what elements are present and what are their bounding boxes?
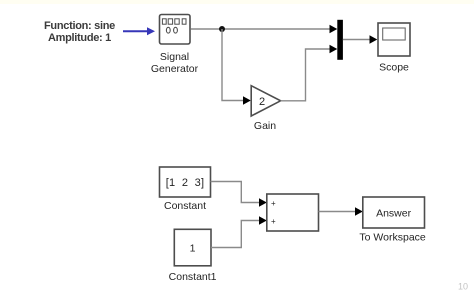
block: Constant1 xyxy=(174,229,211,265)
svg-text:Gain: Gain xyxy=(254,120,276,132)
svg-text:Scope: Scope xyxy=(379,62,409,74)
svg-text:Constant1: Constant1 xyxy=(169,271,217,283)
mux bar xyxy=(337,20,343,60)
svg-text:2: 2 xyxy=(259,96,265,108)
wire: signal generator output to mux input 1 xyxy=(191,28,331,30)
svg-text:Answer: Answer xyxy=(376,208,412,220)
wire: constant1 to sum input 2 xyxy=(211,221,260,248)
wire: sum output to To Workspace xyxy=(319,211,356,213)
svg-text:[1 2 3]: [1 2 3] xyxy=(166,177,205,189)
svg-text:Generator: Generator xyxy=(151,63,199,75)
label: Signal Generator xyxy=(151,51,199,75)
arrowhead into To Workspace xyxy=(355,207,363,215)
block: Constant xyxy=(160,167,211,197)
wire: mux output to scope xyxy=(343,39,370,41)
wire: gain output to mux input 2 xyxy=(281,49,331,101)
annotation: Function/Amplitude xyxy=(44,20,115,44)
arrowhead into mux input 2 xyxy=(330,45,338,53)
svg-text:Constant: Constant xyxy=(164,200,206,212)
svg-text:+: + xyxy=(271,217,276,226)
svg-text:To Workspace: To Workspace xyxy=(359,232,425,244)
arrowhead into mux input 1 xyxy=(330,25,338,33)
blue arrow xyxy=(123,27,155,35)
wire: junction down to gain input xyxy=(222,29,244,101)
junction node xyxy=(219,26,225,32)
block: Signal Generator xyxy=(160,15,191,45)
arrowhead into sum input 1 xyxy=(259,198,267,206)
svg-text:Signal: Signal xyxy=(160,51,189,63)
svg-text:Function: sine: Function: sine xyxy=(44,20,115,32)
svg-text:Amplitude: 1: Amplitude: 1 xyxy=(48,32,111,44)
arrowhead into gain xyxy=(243,96,251,104)
arrowhead into sum input 2 xyxy=(259,216,267,224)
svg-text:10: 10 xyxy=(458,282,468,292)
svg-text:+: + xyxy=(271,199,276,208)
wire: constant to sum input 1 xyxy=(211,182,260,203)
block: To Workspace (Answer) xyxy=(363,197,425,228)
svg-text:1: 1 xyxy=(190,243,196,255)
block: Gain xyxy=(251,86,280,116)
arrowhead into scope xyxy=(370,35,378,43)
block: Sum (Add) xyxy=(267,194,319,231)
block: Scope xyxy=(378,23,410,56)
